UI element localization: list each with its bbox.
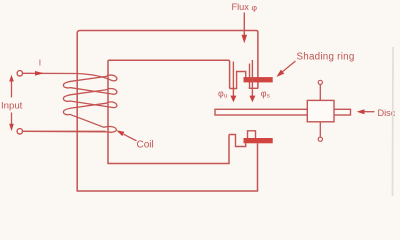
shading ring top (thick bar) (244, 77, 273, 82)
core outer boundary (77, 31, 258, 192)
svg-text:Input: Input (1, 101, 23, 112)
bottom input wire (23, 130, 106, 132)
coil winding (continuous helix) (23, 74, 117, 133)
spindle bottom pivot circle (318, 137, 322, 141)
lower pole right finger (248, 131, 256, 138)
svg-text:Flux: Flux (232, 2, 250, 12)
spindle top pivot circle (318, 80, 322, 84)
svg-text:Shading ring: Shading ring (297, 52, 355, 63)
disc leader arrow (363, 111, 375, 113)
svg-text:s: s (267, 93, 270, 100)
page scan edge artifact (392, 47, 395, 196)
top pole left finger face (230, 72, 246, 89)
current I arrowhead (35, 71, 44, 76)
shading ring leader arrow (282, 61, 296, 73)
svg-text:Coil: Coil (137, 140, 154, 151)
input terminal top (17, 71, 22, 76)
svg-text:u: u (224, 93, 228, 100)
top input wire (23, 72, 78, 74)
phi_s arrow (251, 60, 253, 96)
svg-text:I: I (39, 58, 41, 68)
phi_u arrow (232, 62, 234, 97)
disc (215, 109, 351, 115)
spindle shaft upper (319, 85, 321, 100)
flux phi arrow (243, 13, 245, 36)
shading ring bottom (thick bar) (244, 138, 273, 143)
coil leader arrow (124, 134, 137, 141)
lower pole left finger (229, 135, 246, 147)
spindle shaft lower (319, 122, 321, 137)
input terminal bottom (17, 129, 22, 134)
top pole right finger (249, 64, 251, 89)
spindle bearing block (307, 100, 334, 121)
core inner window boundary (108, 60, 230, 163)
input double arrow (11, 79, 13, 98)
svg-text:φ: φ (252, 3, 258, 13)
